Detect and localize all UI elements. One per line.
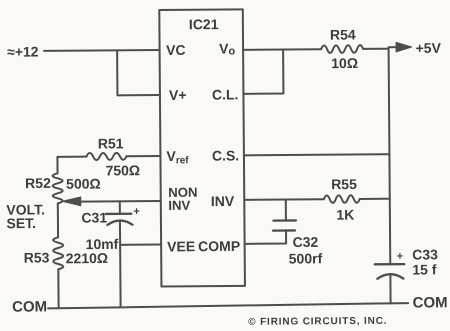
capacitor C33: [375, 264, 405, 279]
wire R55 to right rail: [360, 198, 390, 200]
wire right rail (+5V to C33): [389, 49, 391, 264]
svg-text:15 f: 15 f: [412, 261, 437, 277]
svg-text:C33: C33: [412, 246, 438, 262]
svg-text:1K: 1K: [336, 206, 354, 222]
svg-text:INV: INV: [211, 193, 235, 209]
svg-text:Vo: Vo: [219, 40, 235, 57]
svg-text:C.S.: C.S.: [212, 147, 239, 163]
wire C33 to COM rail: [389, 275, 391, 304]
svg-text:750Ω: 750Ω: [105, 162, 140, 178]
svg-text:VEE: VEE: [167, 238, 195, 254]
svg-text:≈+12: ≈+12: [7, 43, 39, 59]
svg-text:SET.: SET.: [6, 215, 36, 231]
svg-text:10Ω: 10Ω: [331, 55, 358, 71]
svg-text:INV: INV: [168, 198, 190, 213]
svg-text:R53: R53: [24, 249, 50, 265]
wire Vref to R51: [126, 155, 160, 157]
potentiometer R52: [53, 173, 63, 203]
svg-text:2210Ω: 2210Ω: [66, 250, 108, 266]
wire R54 to +5V node: [363, 48, 388, 50]
svg-text:© FIRING CIRCUITS, INC.: © FIRING CIRCUITS, INC.: [248, 316, 387, 328]
svg-text:Vref: Vref: [166, 148, 189, 167]
resistor R54: [321, 45, 363, 53]
svg-text:COM: COM: [12, 298, 47, 315]
svg-text:R52: R52: [25, 175, 51, 191]
wire C31 to COM rail: [119, 221, 122, 307]
svg-text:500Ω: 500Ω: [66, 175, 101, 191]
svg-text:R54: R54: [330, 26, 356, 42]
svg-text:500rf: 500rf: [289, 250, 323, 266]
svg-text:C.L.: C.L.: [212, 86, 239, 102]
svg-text:COM: COM: [413, 294, 448, 311]
svg-text:R51: R51: [98, 135, 124, 151]
wire C.S. to right rail: [244, 154, 389, 155]
wire INV to R55: [244, 198, 323, 201]
resistor R55: [324, 195, 360, 203]
capacitor C31: [106, 214, 133, 225]
svg-text:V+: V+: [169, 87, 187, 103]
wiper arrow of R52: [80, 200, 160, 203]
resistor R53: [53, 237, 63, 269]
svg-text:VC: VC: [166, 42, 186, 58]
node +5V output arrow: [389, 46, 397, 48]
op-amp / regulator IC U IC21 box: [159, 9, 245, 286]
wire C32 to COMP: [245, 231, 287, 244]
wire VC input from +12: [44, 49, 159, 52]
svg-text:IC21: IC21: [189, 16, 219, 32]
svg-text:+5V: +5V: [416, 40, 442, 56]
wire branch to V+: [117, 50, 160, 95]
svg-text:C31: C31: [81, 209, 107, 225]
svg-text:C32: C32: [293, 234, 319, 250]
wire COM rail bottom: [48, 303, 408, 308]
wire INV branch down to C32: [285, 200, 287, 220]
svg-text:R55: R55: [331, 176, 357, 192]
wire Vo to C.L. loop: [243, 50, 283, 94]
resistor R51: [86, 153, 126, 160]
capacitor C32: [273, 220, 296, 230]
wire R51 to left rail: [57, 157, 86, 174]
wire Vo output: [243, 48, 321, 51]
svg-text:+: +: [397, 251, 404, 263]
wire R52 to R53: [57, 203, 59, 237]
svg-text:COMP: COMP: [198, 238, 240, 254]
wire VEE to C31 node: [120, 244, 161, 246]
wire R53 to COM: [57, 269, 59, 308]
svg-text:+: +: [133, 206, 140, 218]
wire NONINV branch down to C31: [119, 201, 121, 213]
